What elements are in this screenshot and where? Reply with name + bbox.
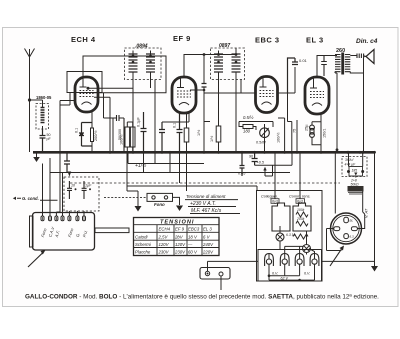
wire IF T2 secondary to EBC3 grid: [204, 48, 256, 93]
svg-text:180: 180: [243, 129, 251, 134]
svg-text:1/½: 1/½: [210, 135, 214, 142]
terminal 3: [55, 216, 58, 221]
wire ECH4 hexode plate line: [88, 87, 133, 89]
Fono jack box: [147, 193, 173, 201]
tube EL3 V4 envelope: [305, 77, 329, 114]
shielded wire to fono (dashed): [104, 196, 147, 198]
ground arrow right of fono: [176, 206, 183, 212]
selector plug at 284.7: [280, 254, 289, 267]
svg-text:100/½: 100/½: [120, 134, 124, 145]
wire y165.2 link: [255, 152, 292, 165]
wire ECH4 anode to IF T1: [83, 51, 151, 78]
resistor R6 cathode (round ends): [312, 122, 321, 145]
svg-text:0.01: 0.01: [299, 58, 308, 63]
capacitor C3 padder: [117, 115, 125, 152]
capacitor C7 below bus: [64, 152, 70, 173]
socket pin bottom: [344, 234, 349, 239]
wire connector leads: [208, 186, 259, 290]
tube EBC3 V3 envelope: [256, 77, 278, 113]
svg-text:EF 9: EF 9: [173, 34, 191, 43]
capacitor C2 0.1 bypass: [79, 123, 92, 147]
svg-text:0897: 0897: [219, 43, 230, 49]
socket left loop wire: [327, 229, 342, 251]
svg-text:Collegam.: Collegam.: [261, 195, 278, 199]
wire EF9 anode up: [184, 51, 236, 78]
resistor R9 zigzag: [293, 234, 308, 239]
selector plug at 269: [265, 254, 274, 267]
tube ECH4 V1 cathode: [82, 102, 92, 105]
wire x204 with capacitor: [204, 55, 210, 153]
wire ECH4 cathode down: [91, 112, 93, 152]
IF transformer T1 dashed box: [125, 48, 162, 80]
svg-text:10: 10: [71, 184, 75, 188]
svg-text:200/½: 200/½: [94, 130, 98, 141]
terminal 4: [61, 216, 64, 221]
antenna coil L1 winding: [41, 100, 45, 129]
output transformer T3 core: [341, 53, 344, 75]
wire filter leads: [349, 152, 363, 178]
antenna: [25, 49, 35, 153]
table body text: [135, 227, 214, 255]
svg-text:0.5/M: 0.5/M: [256, 141, 266, 145]
oscillator trimmer dashed box: [64, 177, 99, 211]
svg-text:200k: 200k: [296, 217, 305, 221]
svg-text:0.1: 0.1: [173, 123, 177, 128]
wire antenna junction to coil: [30, 99, 43, 101]
tube ECH4 V1 anode: [80, 77, 87, 88]
svg-text:6 V: 6 V: [203, 234, 211, 239]
resistor R2 vertical pair: [125, 127, 130, 147]
svg-text:+1/½: +1/½: [135, 162, 147, 169]
wire osc padder branch: [112, 118, 114, 152]
wire EF9 cathode pin: [162, 90, 204, 122]
wire ECH4 grid line: [92, 56, 166, 93]
svg-text:Fono: Fono: [154, 202, 165, 207]
voltage selector box: [258, 250, 322, 282]
tube ECH4 V1 grids: [80, 91, 94, 97]
resistor R7 zigzag: [296, 212, 308, 217]
terminal 1: [41, 216, 44, 221]
junction dots on bus: [109, 151, 112, 154]
resistor R4: [216, 126, 221, 142]
connector box: [200, 268, 230, 280]
Fono jack contacts: [152, 196, 155, 199]
svg-text:90: 90: [249, 155, 253, 159]
arrow into trimmer box: [68, 172, 72, 177]
wire IF T2 leads down: [219, 80, 237, 153]
wire socket left lead: [334, 152, 336, 213]
wire EL3 cathode down: [320, 114, 322, 152]
speaker voice coil: [357, 54, 364, 59]
svg-text:+0.5: +0.5: [257, 161, 265, 165]
wire plug stems up to lamp: [285, 246, 315, 253]
wire AVC row: [239, 122, 273, 128]
svg-text:ECH4: ECH4: [159, 227, 171, 232]
tube EF9 V2 grids: [177, 91, 191, 97]
ground arrow right: [374, 262, 376, 267]
selector plug at 299.6: [295, 254, 304, 267]
wire T3 secondary to voice coil: [350, 56, 363, 153]
svg-text:EBC3: EBC3: [188, 227, 200, 232]
svg-text:6v3: 6v3: [272, 200, 278, 204]
IF T2 secondary winding: [232, 54, 241, 72]
svg-text:1µF: 1µF: [85, 184, 92, 188]
wire IF T1 leads down: [133, 80, 155, 153]
ground symbol at bus left: [36, 154, 38, 158]
tube EL3 V4 grids: [310, 92, 324, 98]
svg-text:0.05: 0.05: [238, 172, 246, 176]
socket pin left: [334, 227, 340, 231]
svg-text:0.1µF: 0.1µF: [137, 117, 141, 127]
svg-text:Catodi: Catodi: [135, 234, 148, 239]
tube EF9 V2 envelope: [172, 77, 196, 113]
resistor R3 under EF9: [184, 128, 189, 142]
capacitor C4 0.1: [141, 112, 147, 152]
rectifier socket outer: [331, 213, 362, 244]
resistor R1 200/half on cathode: [91, 128, 94, 142]
label 6v3 a boxed: [271, 199, 279, 204]
svg-text:6,3: 6,3: [350, 235, 355, 239]
wire R4 leads: [218, 110, 220, 152]
wire osc box left lead: [60, 101, 75, 153]
svg-text:BL: BL: [350, 219, 354, 223]
svg-text:.0894: .0894: [135, 44, 148, 50]
svg-text:75: 75: [293, 129, 297, 133]
svg-text:220V: 220V: [202, 250, 214, 255]
capacitor C5: [159, 122, 165, 152]
switch wafer A: [272, 203, 290, 231]
wire ECH4 osc grid line: [94, 97, 110, 152]
wire x284.6: [278, 118, 285, 152]
wire R5 leads: [239, 122, 256, 131]
capacitor C6 0.1: [177, 113, 183, 152]
svg-text:ECH 4: ECH 4: [71, 35, 96, 44]
svg-text:Placche: Placche: [135, 250, 151, 255]
wire verticals below bus to terminals: [43, 120, 187, 216]
wire dashed AVC line y183: [70, 182, 340, 184]
tube EBC3 V3 cathode: [262, 102, 272, 105]
rectifier socket inner: [333, 215, 359, 241]
antenna coil L1 dashed box: [36, 104, 49, 130]
tube EBC3 V3 anode: [260, 76, 267, 87]
svg-text:60 V: 60 V: [188, 250, 198, 255]
tube EF9 V2 anode: [177, 77, 184, 88]
svg-text:1860-05: 1860-05: [36, 95, 52, 100]
wire HT to socket: [357, 192, 364, 229]
svg-text:EL 3: EL 3: [306, 36, 324, 45]
tube ECH4 V1 envelope: [75, 77, 98, 112]
svg-text:230V: 230V: [174, 250, 186, 255]
power unit enclosure box: [257, 191, 323, 282]
arrow to tuning box: [28, 253, 43, 268]
wire x297: [296, 120, 298, 152]
capacitor tone on EL3 anode: [321, 56, 327, 77]
svg-text:120V: 120V: [159, 242, 170, 247]
wire lamp chain: [280, 226, 307, 255]
svg-text:230V: 230V: [158, 250, 170, 255]
tube EL3 V4 cathode: [312, 103, 322, 106]
svg-text:6.V.: 6.V.: [272, 272, 278, 276]
capacitor C9 0.05: [240, 152, 245, 176]
svg-text:185: 185: [352, 169, 358, 173]
wire T3 primary bottom down: [335, 72, 337, 153]
wire grid coil return: [60, 104, 70, 106]
tube EF9 V2 cathode: [179, 103, 189, 106]
IF T1 secondary winding: [146, 54, 155, 72]
svg-text:2,5V: 2,5V: [158, 234, 169, 239]
IF transformer T2 dashed box: [211, 48, 245, 80]
svg-text:25µ: 25µ: [305, 124, 309, 131]
output transformer T3 windings: [335, 55, 350, 72]
wire line y172.5: [50, 172, 290, 174]
arrow pickup: [265, 165, 273, 176]
svg-text:EBC 3: EBC 3: [255, 36, 280, 45]
label 6v3 b boxed: [296, 199, 305, 204]
terminal 6: [76, 216, 79, 221]
svg-text:4+4 µF: 4+4 µF: [345, 163, 357, 167]
svg-text:260: 260: [336, 48, 345, 54]
IF T2 primary winding: [214, 54, 223, 72]
svg-text:EL 3: EL 3: [203, 227, 212, 232]
wire EBC3 plate to coupling cap: [278, 67, 296, 93]
svg-text:EF 9: EF 9: [175, 227, 185, 232]
switch wafer B: [293, 203, 311, 231]
node antenna junction: [28, 98, 31, 101]
wire AVC line y163.5: [127, 152, 204, 191]
speaker cone: [364, 50, 375, 64]
svg-text:50kΩ: 50kΩ: [351, 182, 359, 186]
svg-text:0.5/½: 0.5/½: [243, 115, 254, 120]
wire EL3 grid: [288, 93, 292, 122]
svg-text:0.1: 0.1: [75, 128, 79, 133]
svg-text:—: —: [187, 242, 193, 247]
svg-text:TENSIONI: TENSIONI: [160, 220, 194, 226]
pilot lamp LP1: [276, 233, 284, 241]
svg-text:GALLO-CONDOR - Mod. BOLO - L'a: GALLO-CONDOR - Mod. BOLO - L'alimentator…: [25, 294, 379, 301]
ground bus thick: [33, 151, 375, 154]
tuning unit chassis box: [30, 216, 34, 247]
dial pointer bar: [95, 228, 129, 233]
wire line y186: [127, 185, 257, 187]
oscillator coil box (ECH4): [67, 72, 102, 93]
wire R3 leads: [186, 113, 188, 152]
wire R2 to bus: [127, 122, 133, 152]
svg-text:Din. c4: Din. c4: [356, 38, 378, 45]
IF T1 primary winding: [129, 54, 138, 72]
wire EL3 anode to output transformer: [317, 56, 337, 78]
potentiometer P1 volume: [260, 128, 270, 138]
svg-text:6.V.: 6.V.: [304, 272, 310, 276]
wire bus end down: [322, 152, 375, 262]
svg-text:G. cond.: G. cond.: [22, 196, 39, 201]
wire osc box bottom leads: [70, 93, 117, 119]
selector plug at 314.5: [310, 254, 319, 267]
wire fono right to ground: [173, 197, 180, 205]
socket pin right: [351, 227, 357, 231]
resistor R8 zigzag: [296, 221, 308, 226]
svg-text:100/½: 100/½: [277, 132, 281, 143]
svg-text:Tensione di aliment: Tensione di aliment: [186, 194, 226, 199]
resistor R5 180: [243, 125, 253, 129]
svg-text:62 V: 62 V: [281, 276, 289, 280]
socket pin top: [344, 217, 349, 222]
svg-text:150/1: 150/1: [323, 128, 327, 138]
capacitor C coupling 0.01: [288, 58, 299, 93]
wire x291.8 grid resistor: [291, 122, 293, 153]
wire line y191 to ground: [127, 191, 138, 206]
svg-text:2bV: 2bV: [174, 234, 184, 239]
svg-text:1/½: 1/½: [197, 129, 201, 136]
arrow to socket: [330, 249, 342, 266]
terminal 5: [68, 216, 71, 221]
pilot lamp LP2: [303, 245, 311, 253]
svg-text:240V: 240V: [202, 242, 214, 247]
terminal 7: [83, 216, 86, 221]
wire selector bottom bus: [269, 264, 315, 280]
tube EL3 V4 anode: [310, 77, 317, 89]
tube EBC3 V3 grids: [260, 91, 274, 97]
trimmer capacitors inside: [67, 181, 87, 199]
filter block dashed box: [342, 157, 367, 177]
svg-text:100k: 100k: [297, 208, 305, 212]
terminal 2: [49, 216, 52, 221]
voltage table TENSIONI: [134, 218, 220, 256]
svg-text:18 V: 18 V: [188, 234, 198, 239]
svg-text:120V: 120V: [175, 242, 186, 247]
capacitor C1 antenna series: [40, 129, 46, 152]
capacitor C8 below bus: [252, 152, 258, 165]
svg-text:3HA f: 3HA f: [345, 158, 354, 162]
electrolytic block (dark): [348, 186, 364, 192]
svg-text:Schermi: Schermi: [135, 242, 152, 247]
filter inner box 185V: [349, 167, 363, 177]
